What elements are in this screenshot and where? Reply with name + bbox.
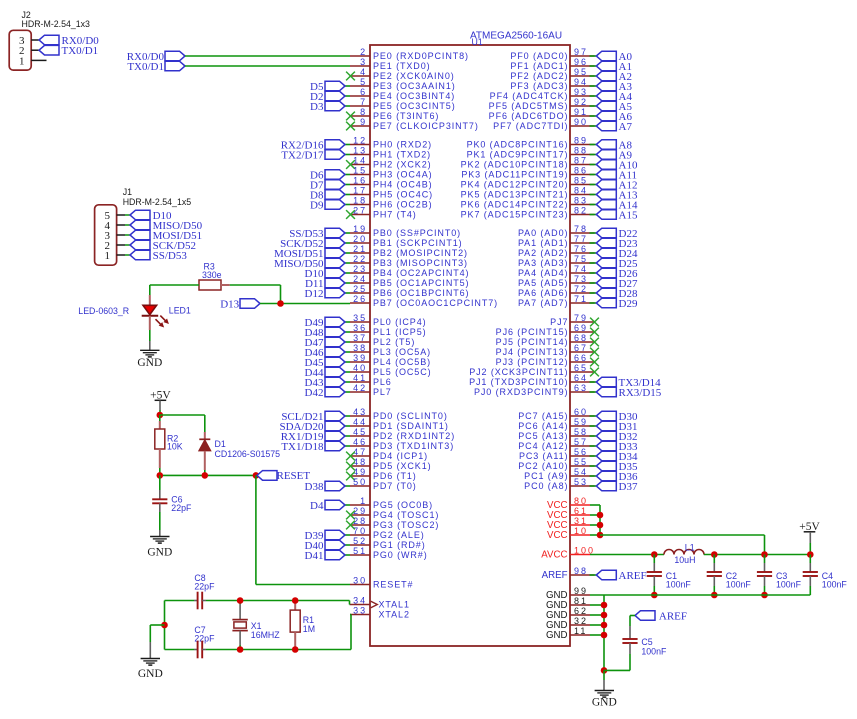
svg-text:100nF: 100nF xyxy=(666,580,692,590)
svg-text:PD5 (XCK1): PD5 (XCK1) xyxy=(373,461,432,471)
svg-text:33: 33 xyxy=(353,606,367,616)
svg-text:78: 78 xyxy=(574,224,588,234)
svg-text:PF3 (ADC3): PF3 (ADC3) xyxy=(510,81,568,91)
svg-text:63: 63 xyxy=(574,383,588,393)
svg-text:76: 76 xyxy=(574,244,588,254)
svg-text:AVCC: AVCC xyxy=(541,550,567,561)
svg-text:D4: D4 xyxy=(310,500,324,512)
svg-text:7: 7 xyxy=(360,97,367,107)
svg-text:PA0 (AD0): PA0 (AD0) xyxy=(518,228,568,238)
svg-text:PB3 (MISOPCINT3): PB3 (MISOPCINT3) xyxy=(373,258,468,268)
svg-text:GND: GND xyxy=(138,668,163,680)
svg-text:PE0 (RXD0PCINT8): PE0 (RXD0PCINT8) xyxy=(373,51,469,61)
svg-text:13: 13 xyxy=(353,146,367,156)
svg-text:D13: D13 xyxy=(220,298,239,310)
svg-text:PK0 (ADC8PCINT16): PK0 (ADC8PCINT16) xyxy=(467,140,569,150)
svg-text:23: 23 xyxy=(353,264,367,274)
svg-text:PA5 (AD5): PA5 (AD5) xyxy=(518,278,568,288)
svg-text:AREF: AREF xyxy=(542,570,568,581)
svg-text:PC4 (A12): PC4 (A12) xyxy=(518,441,568,451)
svg-text:88: 88 xyxy=(574,146,588,156)
svg-text:68: 68 xyxy=(574,333,588,343)
svg-text:100nF: 100nF xyxy=(726,580,752,590)
svg-text:PD2 (RXD1INT2): PD2 (RXD1INT2) xyxy=(373,431,455,441)
svg-text:81: 81 xyxy=(574,596,588,606)
svg-text:U1: U1 xyxy=(472,37,483,47)
svg-text:PH0 (RXD2): PH0 (RXD2) xyxy=(373,140,432,150)
svg-text:46: 46 xyxy=(353,437,367,447)
svg-text:9: 9 xyxy=(360,117,367,127)
svg-text:LED-0603_R: LED-0603_R xyxy=(78,306,129,316)
svg-text:PF1 (ADC1): PF1 (ADC1) xyxy=(510,61,568,71)
svg-text:RESET#: RESET# xyxy=(373,580,413,590)
svg-text:PJ1 (TXD3PCINT10): PJ1 (TXD3PCINT10) xyxy=(469,377,568,387)
svg-text:PF4 (ADC4TCK): PF4 (ADC4TCK) xyxy=(490,91,569,101)
svg-text:18: 18 xyxy=(353,196,367,206)
svg-text:82: 82 xyxy=(574,206,588,216)
svg-text:62: 62 xyxy=(574,606,588,616)
svg-text:50: 50 xyxy=(353,477,367,487)
svg-text:L1: L1 xyxy=(685,543,695,553)
svg-text:PD7 (T0): PD7 (T0) xyxy=(373,481,417,491)
svg-text:PK1 (ADC9PCINT17): PK1 (ADC9PCINT17) xyxy=(467,150,569,160)
svg-text:61: 61 xyxy=(574,506,588,516)
svg-text:100nF: 100nF xyxy=(641,647,667,657)
svg-text:PC0 (A8): PC0 (A8) xyxy=(524,481,568,491)
svg-text:55: 55 xyxy=(574,457,588,467)
svg-text:ATMEGA2560-16AU: ATMEGA2560-16AU xyxy=(470,31,562,42)
svg-text:PL1 (ICP5): PL1 (ICP5) xyxy=(373,327,427,337)
svg-text:PB0 (SS#PCINT0): PB0 (SS#PCINT0) xyxy=(373,228,461,238)
svg-text:20: 20 xyxy=(353,234,367,244)
svg-text:PA2 (AD2): PA2 (AD2) xyxy=(518,248,568,258)
svg-text:A15: A15 xyxy=(619,209,638,221)
svg-text:TX0/D1: TX0/D1 xyxy=(127,61,164,73)
svg-text:PJ4 (PCINT13): PJ4 (PCINT13) xyxy=(496,347,569,357)
svg-text:58: 58 xyxy=(574,427,588,437)
svg-text:PK5 (ADC13PCINT21): PK5 (ADC13PCINT21) xyxy=(461,190,569,200)
svg-text:D38: D38 xyxy=(305,481,324,493)
svg-text:83: 83 xyxy=(574,196,588,206)
svg-text:60: 60 xyxy=(574,407,588,417)
svg-text:SS/D53: SS/D53 xyxy=(153,250,188,262)
svg-text:PF2 (ADC2): PF2 (ADC2) xyxy=(510,71,568,81)
svg-text:PD1 (SDAINT1): PD1 (SDAINT1) xyxy=(373,421,449,431)
svg-text:91: 91 xyxy=(574,107,588,117)
svg-text:PC5 (A13): PC5 (A13) xyxy=(518,431,568,441)
svg-text:30: 30 xyxy=(353,576,367,586)
svg-text:16MHZ: 16MHZ xyxy=(251,630,280,640)
svg-text:65: 65 xyxy=(574,363,588,373)
svg-text:90: 90 xyxy=(574,117,588,127)
svg-text:PJ5 (PCINT14): PJ5 (PCINT14) xyxy=(496,337,569,347)
svg-text:PC6 (A14): PC6 (A14) xyxy=(518,421,568,431)
svg-text:67: 67 xyxy=(574,343,588,353)
svg-text:PK4 (ADC12PCINT20): PK4 (ADC12PCINT20) xyxy=(461,180,569,190)
svg-text:PH5 (OC4C): PH5 (OC4C) xyxy=(373,190,433,200)
svg-text:89: 89 xyxy=(574,136,588,146)
svg-text:98: 98 xyxy=(574,566,588,576)
svg-text:PA1 (AD1): PA1 (AD1) xyxy=(518,238,568,248)
svg-text:PL4 (OC5B): PL4 (OC5B) xyxy=(373,357,431,367)
svg-text:PJ0 (RXD3PCINT9): PJ0 (RXD3PCINT9) xyxy=(474,387,568,397)
svg-text:19: 19 xyxy=(353,224,367,234)
svg-text:10: 10 xyxy=(574,526,588,536)
svg-text:71: 71 xyxy=(574,294,588,304)
svg-text:92: 92 xyxy=(574,97,588,107)
svg-text:XTAL2: XTAL2 xyxy=(379,610,410,620)
svg-text:PH2 (XCK2): PH2 (XCK2) xyxy=(373,160,432,170)
svg-text:PC1 (A9): PC1 (A9) xyxy=(524,471,568,481)
svg-text:51: 51 xyxy=(353,546,367,556)
svg-text:PB1 (SCKPCINT1): PB1 (SCKPCINT1) xyxy=(373,238,463,248)
svg-text:PE3 (OC3AAIN1): PE3 (OC3AAIN1) xyxy=(373,81,456,91)
svg-text:12: 12 xyxy=(353,136,367,146)
svg-text:25: 25 xyxy=(353,284,367,294)
svg-text:22pF: 22pF xyxy=(194,582,215,592)
svg-text:D29: D29 xyxy=(619,298,638,310)
svg-text:PJ2 (XCK3PCINT11): PJ2 (XCK3PCINT11) xyxy=(469,367,568,377)
svg-text:84: 84 xyxy=(574,186,588,196)
svg-text:C5: C5 xyxy=(641,637,652,647)
svg-text:2: 2 xyxy=(360,47,367,57)
svg-text:86: 86 xyxy=(574,166,588,176)
svg-text:PA6 (AD6): PA6 (AD6) xyxy=(518,288,568,298)
svg-text:94: 94 xyxy=(574,77,588,87)
svg-text:32: 32 xyxy=(574,616,588,626)
svg-text:74: 74 xyxy=(574,264,588,274)
svg-text:64: 64 xyxy=(574,373,588,383)
svg-text:PJ3 (PCINT12): PJ3 (PCINT12) xyxy=(496,357,569,367)
svg-text:15: 15 xyxy=(353,166,367,176)
svg-text:10uH: 10uH xyxy=(674,555,695,565)
svg-text:D42: D42 xyxy=(305,387,324,399)
svg-text:10K: 10K xyxy=(167,442,183,452)
svg-text:PE1 (TXD0): PE1 (TXD0) xyxy=(373,61,431,71)
svg-text:97: 97 xyxy=(574,47,588,57)
svg-text:PK6 (ADC14PCINT22): PK6 (ADC14PCINT22) xyxy=(461,200,569,210)
svg-text:5: 5 xyxy=(360,77,367,87)
svg-text:RESET: RESET xyxy=(277,470,311,482)
svg-text:PK7 (ADC15PCINT23): PK7 (ADC15PCINT23) xyxy=(461,210,569,220)
svg-text:69: 69 xyxy=(574,323,588,333)
svg-text:PG2 (ALE): PG2 (ALE) xyxy=(373,530,425,540)
svg-text:PH4 (OC4B): PH4 (OC4B) xyxy=(373,180,433,190)
svg-text:17: 17 xyxy=(353,186,367,196)
svg-text:87: 87 xyxy=(574,156,588,166)
svg-text:TX0/D1: TX0/D1 xyxy=(62,45,99,57)
svg-text:PA3 (AD3): PA3 (AD3) xyxy=(518,258,568,268)
svg-text:100nF: 100nF xyxy=(822,580,848,590)
svg-text:31: 31 xyxy=(574,516,588,526)
svg-text:96: 96 xyxy=(574,57,588,67)
svg-text:39: 39 xyxy=(353,353,367,363)
svg-text:PE2 (XCK0AIN0): PE2 (XCK0AIN0) xyxy=(373,71,455,81)
svg-text:77: 77 xyxy=(574,234,588,244)
svg-text:24: 24 xyxy=(353,274,367,284)
svg-text:73: 73 xyxy=(574,274,588,284)
svg-text:PB5 (OC1APCINT5): PB5 (OC1APCINT5) xyxy=(373,278,469,288)
svg-text:PE5 (OC3CINT5): PE5 (OC3CINT5) xyxy=(373,101,456,111)
svg-text:PG4 (TOSC1): PG4 (TOSC1) xyxy=(373,510,439,520)
svg-text:80: 80 xyxy=(574,496,588,506)
svg-text:PC3 (A11): PC3 (A11) xyxy=(519,451,568,461)
svg-text:D1: D1 xyxy=(215,439,226,449)
svg-text:HDR-M-2.54_1x3: HDR-M-2.54_1x3 xyxy=(22,19,91,29)
svg-text:PF0 (ADC0): PF0 (ADC0) xyxy=(510,51,568,61)
svg-text:22pF: 22pF xyxy=(171,503,192,513)
svg-text:PC2 (A10): PC2 (A10) xyxy=(518,461,568,471)
svg-text:PE4 (OC3BINT4): PE4 (OC3BINT4) xyxy=(373,91,455,101)
svg-text:75: 75 xyxy=(574,254,588,264)
svg-text:26: 26 xyxy=(353,294,367,304)
svg-text:PJ6 (PCINT15): PJ6 (PCINT15) xyxy=(496,327,569,337)
svg-text:PA4 (AD4): PA4 (AD4) xyxy=(518,268,568,278)
svg-text:PG5 (OC0B): PG5 (OC0B) xyxy=(373,500,433,510)
svg-text:330e: 330e xyxy=(202,270,222,280)
svg-text:42: 42 xyxy=(353,383,367,393)
svg-text:D3: D3 xyxy=(310,101,324,113)
svg-text:PJ7: PJ7 xyxy=(550,317,568,327)
svg-text:PH3 (OC4A): PH3 (OC4A) xyxy=(373,170,433,180)
svg-text:16: 16 xyxy=(353,176,367,186)
svg-text:52: 52 xyxy=(353,536,367,546)
svg-text:36: 36 xyxy=(353,323,367,333)
svg-text:93: 93 xyxy=(574,87,588,97)
svg-text:GND: GND xyxy=(137,357,162,369)
svg-text:A7: A7 xyxy=(619,121,633,133)
svg-text:44: 44 xyxy=(353,417,367,427)
svg-text:99: 99 xyxy=(574,586,588,596)
svg-text:PF5 (ADC5TMS): PF5 (ADC5TMS) xyxy=(489,101,569,111)
svg-text:59: 59 xyxy=(574,417,588,427)
svg-text:PE7 (CLKOICP3INT7): PE7 (CLKOICP3INT7) xyxy=(373,121,479,131)
svg-text:PB7 (OC0AOC1CPCINT7): PB7 (OC0AOC1CPCINT7) xyxy=(373,298,498,308)
svg-text:J1: J1 xyxy=(123,187,132,197)
svg-text:35: 35 xyxy=(353,313,367,323)
svg-text:PL0 (ICP4): PL0 (ICP4) xyxy=(373,317,427,327)
svg-text:TX2/D17: TX2/D17 xyxy=(281,149,324,161)
svg-text:57: 57 xyxy=(574,437,588,447)
svg-text:PK3 (ADC11PCINT19): PK3 (ADC11PCINT19) xyxy=(461,170,568,180)
svg-text:1: 1 xyxy=(19,55,25,67)
svg-text:54: 54 xyxy=(574,467,588,477)
svg-text:GND: GND xyxy=(546,630,568,641)
svg-text:PD3 (TXD1INT3): PD3 (TXD1INT3) xyxy=(373,441,454,451)
svg-text:8: 8 xyxy=(360,107,367,117)
svg-text:38: 38 xyxy=(353,343,367,353)
svg-text:TX1/D18: TX1/D18 xyxy=(281,441,324,453)
svg-text:D12: D12 xyxy=(305,288,324,300)
svg-text:1: 1 xyxy=(360,496,367,506)
svg-text:PD6 (T1): PD6 (T1) xyxy=(373,471,417,481)
svg-text:70: 70 xyxy=(353,526,367,536)
svg-text:HDR-M-2.54_1x5: HDR-M-2.54_1x5 xyxy=(123,197,192,207)
svg-text:PL5 (OC5C): PL5 (OC5C) xyxy=(373,367,432,377)
svg-text:D9: D9 xyxy=(310,199,324,211)
svg-text:4: 4 xyxy=(360,67,367,77)
svg-text:PG0 (WR#): PG0 (WR#) xyxy=(373,550,428,560)
svg-text:PD0 (SCLINT0): PD0 (SCLINT0) xyxy=(373,411,448,421)
svg-text:PL2 (T5): PL2 (T5) xyxy=(373,337,415,347)
svg-text:PL6: PL6 xyxy=(373,377,392,387)
svg-text:GND: GND xyxy=(147,547,172,559)
svg-text:40: 40 xyxy=(353,363,367,373)
svg-text:PB2 (MOSIPCINT2): PB2 (MOSIPCINT2) xyxy=(373,248,468,258)
svg-text:PE6 (T3INT6): PE6 (T3INT6) xyxy=(373,111,439,121)
svg-text:3: 3 xyxy=(360,57,367,67)
svg-text:43: 43 xyxy=(353,407,367,417)
svg-text:PL7: PL7 xyxy=(373,387,392,397)
svg-text:21: 21 xyxy=(353,244,367,254)
svg-text:79: 79 xyxy=(574,313,588,323)
svg-text:LED1: LED1 xyxy=(169,306,191,316)
svg-text:41: 41 xyxy=(353,373,367,383)
svg-text:85: 85 xyxy=(574,176,588,186)
svg-text:53: 53 xyxy=(574,477,588,487)
svg-text:GND: GND xyxy=(592,697,617,709)
svg-text:PB4 (OC2APCINT4): PB4 (OC2APCINT4) xyxy=(373,268,469,278)
svg-text:VCC: VCC xyxy=(547,530,567,541)
svg-text:CD1206-S01575: CD1206-S01575 xyxy=(215,449,281,459)
svg-text:72: 72 xyxy=(574,284,588,294)
svg-text:PD4 (ICP1): PD4 (ICP1) xyxy=(373,451,428,461)
svg-text:6: 6 xyxy=(360,87,367,97)
svg-text:PH1 (TXD2): PH1 (TXD2) xyxy=(373,150,431,160)
svg-text:66: 66 xyxy=(574,353,588,363)
svg-text:PK2 (ADC10PCINT18): PK2 (ADC10PCINT18) xyxy=(461,160,569,170)
svg-text:PC7 (A15): PC7 (A15) xyxy=(518,411,568,421)
svg-text:1M: 1M xyxy=(303,624,315,634)
svg-text:22: 22 xyxy=(353,254,367,264)
svg-text:100nF: 100nF xyxy=(776,580,802,590)
svg-text:PF7 (ADC7TDI): PF7 (ADC7TDI) xyxy=(493,121,568,131)
svg-text:PB6 (OC1BPCINT6): PB6 (OC1BPCINT6) xyxy=(373,288,469,298)
svg-text:D41: D41 xyxy=(305,550,324,562)
svg-text:1: 1 xyxy=(105,250,111,262)
svg-text:XTAL1: XTAL1 xyxy=(379,600,410,610)
svg-text:PL3 (OC5A): PL3 (OC5A) xyxy=(373,347,431,357)
svg-text:D37: D37 xyxy=(619,481,638,493)
svg-text:PG3 (TOSC2): PG3 (TOSC2) xyxy=(373,520,439,530)
svg-text:PH6 (OC2B): PH6 (OC2B) xyxy=(373,200,433,210)
svg-text:PA7 (AD7): PA7 (AD7) xyxy=(518,298,568,308)
svg-text:34: 34 xyxy=(353,596,367,606)
svg-text:PF6 (ADC6TDO): PF6 (ADC6TDO) xyxy=(489,111,569,121)
svg-text:PH7 (T4): PH7 (T4) xyxy=(373,210,417,220)
svg-text:AREF: AREF xyxy=(659,610,687,622)
svg-text:45: 45 xyxy=(353,427,367,437)
svg-text:56: 56 xyxy=(574,447,588,457)
svg-text:37: 37 xyxy=(353,333,367,343)
svg-text:95: 95 xyxy=(574,67,588,77)
svg-text:AREF: AREF xyxy=(619,570,647,582)
svg-text:PG1 (RD#): PG1 (RD#) xyxy=(373,540,426,550)
svg-text:RX3/D15: RX3/D15 xyxy=(619,387,662,399)
svg-text:11: 11 xyxy=(574,626,587,636)
